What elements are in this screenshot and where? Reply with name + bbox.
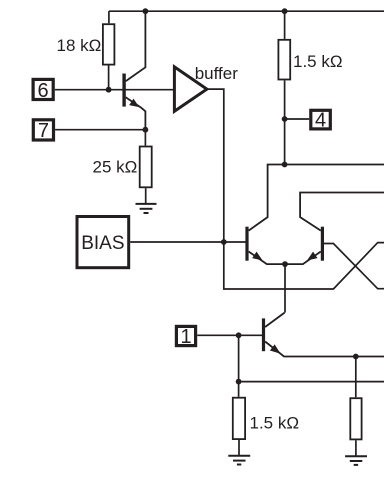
transistor Q4 emitter arrow (270, 344, 283, 357)
ground symbol G3 (345, 456, 367, 465)
wire rail to R1 top (108, 11, 110, 23)
transistor Q2 base bar (245, 227, 248, 261)
wire pin1 node down to R4 (238, 335, 240, 397)
transistor Q2 emitter arrow (252, 252, 265, 264)
node junction dot emitter rail / R5 (353, 354, 359, 360)
transistor Q3 base bar (321, 227, 324, 261)
wire pin 6 to buffer input (through Q1 base) (55, 89, 175, 91)
wire R3 bottom down to collector node (284, 80, 286, 164)
BIAS box (77, 217, 129, 268)
transistor Q1 collector lead (126, 11, 146, 81)
wire top supply rail (109, 10, 384, 12)
node junction dot lower rail (236, 379, 242, 385)
wire buffer output down, right, cross up to right edge (207, 89, 384, 289)
node junction dot common emitters (282, 261, 288, 267)
wire node down to R5 (355, 357, 357, 398)
transistor Q2 collector lead up to node (249, 165, 285, 231)
ground symbol G2 (228, 456, 250, 465)
wire pin 7 to Q1 emitter node (55, 129, 145, 131)
wire R4 bottom to ground (238, 440, 240, 456)
pin box 1 (176, 326, 195, 345)
node junction dot pin7/emitter/R2 (143, 127, 149, 133)
transistor Q3 emitter arrow (305, 252, 318, 264)
svg-text:7: 7 (38, 120, 49, 142)
resistor R1 18 kOhm body (103, 24, 115, 64)
wire tap to pin 4 box (285, 118, 310, 120)
wire R1 bottom to Q1 base node (108, 66, 110, 90)
transistor Q4 base bar (262, 318, 265, 351)
transistor Q4 collector lead diagonal (265, 313, 285, 327)
wire Q3 base lead cross down to right edge (324, 244, 384, 289)
node junction dot R1/pin6/base (106, 87, 112, 93)
wire rail down to R3 top (284, 11, 286, 39)
svg-text:1: 1 (180, 326, 191, 348)
pin box 7 (33, 120, 53, 140)
wire node to R2 top (144, 130, 146, 146)
ground symbol G1 (136, 204, 157, 213)
pin box 4 (311, 110, 331, 129)
svg-text:1.5 kΩ: 1.5 kΩ (250, 413, 300, 432)
pin box 6 (33, 79, 53, 99)
svg-text:18 kΩ: 18 kΩ (57, 36, 102, 55)
transistor Q2 emitter lead (249, 252, 285, 265)
resistor R3 1.5 kOhm body (278, 40, 290, 80)
node junction dot pin4 tap (282, 116, 288, 122)
wire lower rail to right edge (239, 381, 384, 383)
transistor Q3 emitter lead (285, 252, 321, 265)
svg-text:1.5 kΩ: 1.5 kΩ (293, 52, 343, 71)
wire BIAS output to Q2 base (130, 241, 245, 243)
node junction dot R3/Q2 collector (282, 162, 288, 168)
node junction dot buffer line/BIAS line (221, 239, 227, 245)
transistor Q1 base bar (122, 74, 125, 107)
wire common emitter node down (284, 264, 286, 313)
resistor R4 1.5 kOhm body (233, 398, 245, 439)
wire R5 bottom to ground (355, 440, 357, 456)
node junction dot rail/R3 (282, 8, 288, 14)
svg-text:6: 6 (38, 80, 49, 102)
buffer U1 triangle (174, 67, 207, 111)
transistor Q3 collector lead to right edge (300, 193, 384, 231)
wire R2 bottom to ground (145, 188, 147, 203)
transistor Q1 emitter lead (126, 97, 146, 129)
svg-text:buffer: buffer (195, 64, 239, 83)
svg-text:25 kΩ: 25 kΩ (93, 158, 138, 177)
transistor Q4 emitter lead to right edge (265, 342, 384, 357)
node junction dot rail/Q1 collector (143, 8, 149, 14)
resistor R2 25 kOhm body (140, 147, 152, 188)
resistor R5 1.5 kOhm body (350, 398, 361, 439)
transistor Q1 emitter arrow (129, 99, 141, 111)
svg-text:BIAS: BIAS (81, 233, 124, 254)
node junction dot pin1 line (236, 332, 242, 338)
svg-text:4: 4 (315, 110, 326, 132)
wire collector node to right edge (285, 164, 384, 166)
wire pin 1 to Q4 base (197, 334, 262, 336)
